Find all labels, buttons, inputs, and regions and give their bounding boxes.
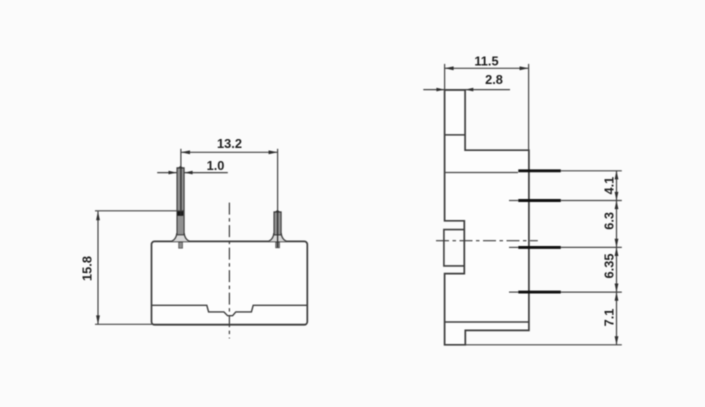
dimension 15.8 (overall height) [80, 211, 184, 324]
dimension 1.0 (pin width) [157, 158, 228, 174]
dimension 11.5 (overall depth) [445, 53, 529, 150]
svg-text:2.8: 2.8 [485, 72, 503, 87]
extension line to left pin (13.2 dim) [180, 149, 182, 216]
pin 4 (side view, bottom) [509, 291, 622, 293]
svg-text:1.0: 1.0 [207, 158, 225, 173]
dimension 2.8 (flange width) [423, 72, 510, 91]
svg-text:11.5: 11.5 [474, 53, 498, 68]
pin 2 (short right terminal) [268, 210, 286, 248]
dimension 6.35 [602, 247, 619, 292]
upper body seam at pin 1 level [445, 172, 518, 174]
bottom seam [445, 321, 529, 323]
horizontal centerline (side view) [436, 240, 538, 242]
svg-text:4.1: 4.1 [602, 177, 617, 195]
side latch tab in recess [444, 230, 464, 266]
dimension 4.1 [602, 171, 619, 201]
extension line to right pin (13.2 dim) [277, 149, 279, 248]
pin 1 (side view, top) [518, 169, 622, 172]
pin pitch dimension chain line [616, 171, 618, 345]
front view case seam with center notch [152, 305, 308, 315]
vertical centerline (front view) [228, 203, 230, 339]
svg-text:6.35: 6.35 [602, 254, 617, 279]
pin 2 (side view) [509, 200, 622, 202]
dimension 7.1 [602, 292, 619, 345]
dimension 6.3 [602, 201, 619, 248]
side view body outline with top flange, side recess and bottom foot [445, 90, 529, 345]
pin 3 (side view, on centerline) [509, 246, 622, 248]
dimension 13.2 (pin spacing) [181, 136, 278, 154]
pin 1 (tall left terminal) [171, 166, 189, 249]
svg-text:6.3: 6.3 [602, 212, 617, 230]
svg-text:7.1: 7.1 [602, 309, 617, 327]
flange seam [445, 134, 466, 136]
bottom extension line (side view base) [466, 344, 622, 346]
svg-text:15.8: 15.8 [80, 256, 95, 281]
front view body outline [152, 241, 308, 324]
svg-text:13.2: 13.2 [217, 136, 242, 151]
